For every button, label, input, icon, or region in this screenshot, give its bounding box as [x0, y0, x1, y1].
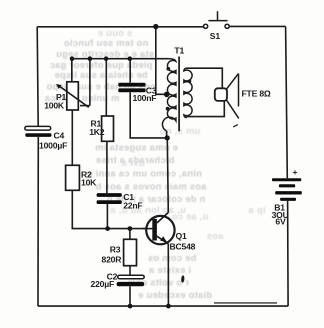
- svg-text:Q1: Q1: [176, 231, 187, 241]
- svg-text:pieda que ofereor gac: pieda que ofereor gac: [50, 60, 153, 70]
- svg-text:aos: aos: [207, 231, 224, 241]
- svg-text:100nF: 100nF: [133, 93, 157, 103]
- svg-text:S1: S1: [210, 31, 221, 41]
- svg-text:220µF: 220µF: [91, 279, 115, 289]
- svg-text:aos mais novos s aos b: aos mais novos s aos b: [95, 182, 206, 192]
- svg-text:C4: C4: [54, 131, 65, 141]
- svg-text:+: +: [293, 167, 298, 177]
- svg-text:i existe a: i existe a: [148, 265, 191, 275]
- svg-text:u, ae co: u, ae co: [171, 212, 208, 222]
- svg-text:no tem seu funcio: no tem seu funcio: [64, 38, 149, 48]
- svg-text:be chela a sua lispe: be chela a sua lispe: [54, 70, 147, 80]
- svg-text:be com os: be com os: [148, 253, 197, 263]
- svg-text:diato excedeu e: diato excedeu e: [138, 290, 212, 300]
- svg-text:FTE 8Ω: FTE 8Ω: [242, 89, 271, 99]
- svg-text:dst a: dst a: [121, 158, 145, 168]
- svg-text:6V: 6V: [275, 217, 286, 227]
- svg-text:R3: R3: [110, 244, 121, 254]
- svg-text:s ouu e: s ouu e: [98, 28, 133, 38]
- svg-text:10K: 10K: [81, 178, 97, 188]
- svg-text:1K2: 1K2: [89, 127, 105, 137]
- svg-text:100K: 100K: [44, 101, 65, 111]
- svg-text:22nF: 22nF: [123, 200, 142, 210]
- svg-text:1000µF: 1000µF: [39, 140, 67, 150]
- svg-text:nina, como um ca anni e: nina, como um ca anni e: [87, 169, 202, 179]
- svg-text:ip a: ip a: [248, 205, 266, 215]
- svg-text:T1: T1: [174, 46, 184, 56]
- svg-text:BC548: BC548: [170, 242, 196, 252]
- svg-text:820R: 820R: [102, 255, 123, 265]
